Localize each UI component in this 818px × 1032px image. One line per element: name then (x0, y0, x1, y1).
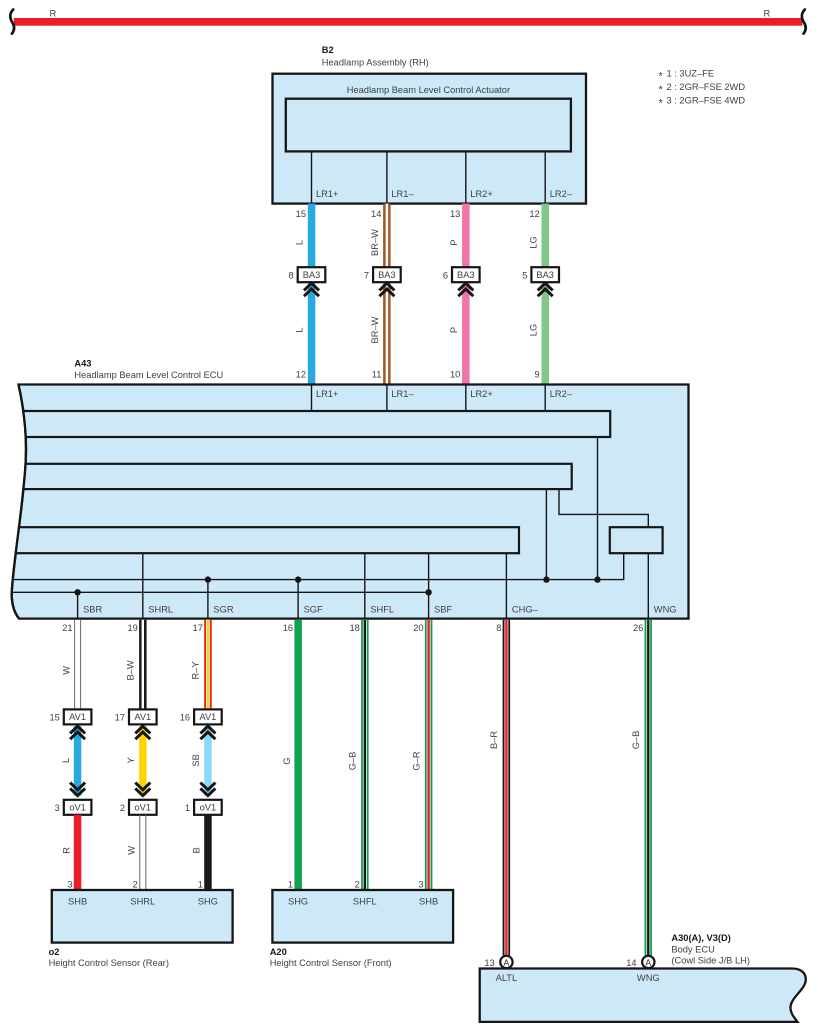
svg-text:L: L (295, 327, 305, 332)
svg-text:3 : 2GR–FSE 4WD: 3 : 2GR–FSE 4WD (667, 96, 746, 106)
svg-text:AV1: AV1 (69, 712, 86, 722)
svg-text:10: 10 (450, 369, 460, 379)
svg-text:P: P (449, 239, 459, 245)
svg-text:LG: LG (528, 324, 538, 336)
svg-text:R: R (61, 847, 71, 854)
svg-text:2 : 2GR–FSE 2WD: 2 : 2GR–FSE 2WD (667, 82, 746, 92)
svg-text:SHB: SHB (68, 896, 87, 906)
ECU internal block bar 1 (0, 411, 610, 437)
svg-text:12: 12 (529, 209, 539, 219)
A43 bottom pin SHRL lead (142, 553, 144, 618)
junction dot SGF / bus 1 (295, 576, 301, 582)
wire BR–W from B2 to connector BA3 (383, 204, 391, 268)
ECU wavy left edge redraw (12, 385, 26, 619)
ECU internal block bar 2 (0, 464, 572, 489)
svg-text:14: 14 (371, 209, 381, 219)
svg-text:14: 14 (626, 958, 636, 968)
svg-text:AV1: AV1 (134, 712, 151, 722)
internal wire from bar2 to bus line 1 (545, 489, 547, 579)
svg-text:*: * (659, 97, 664, 109)
svg-text:BR–W: BR–W (370, 229, 380, 256)
wire BR–W from BA3 to ECU A43 (383, 283, 391, 383)
connector arrow chevrons (379, 283, 394, 290)
svg-text:Headlamp Beam Level Control EC: Headlamp Beam Level Control ECU (74, 370, 223, 380)
connector oV1 pin 2 (129, 800, 157, 815)
connector BA3 pin 7 (373, 267, 401, 282)
A43 bottom pin SBR lead (77, 592, 79, 618)
B2 pin LR1+ lead (311, 151, 313, 203)
wire LG from BA3 to ECU A43 (542, 283, 550, 383)
connector arrow chevrons (down) (70, 783, 85, 790)
svg-text:1: 1 (288, 880, 293, 890)
svg-text:A20: A20 (270, 947, 287, 957)
svg-text:SGR: SGR (213, 605, 233, 615)
wire G-B from A43 WNG to body ECU WNG (645, 620, 653, 956)
svg-text:Height Control Sensor (Rear): Height Control Sensor (Rear) (49, 958, 169, 968)
svg-text:16: 16 (180, 713, 190, 723)
svg-text:B: B (192, 847, 202, 853)
B2 pin LR2– lead (544, 151, 546, 203)
svg-text:SHRL: SHRL (148, 605, 173, 615)
svg-text:A43: A43 (74, 359, 91, 369)
svg-text:2: 2 (355, 880, 360, 890)
svg-text:W: W (61, 666, 71, 675)
svg-text:3: 3 (67, 880, 72, 890)
wire G-R from A43 SBF to sensor A20 (425, 620, 433, 890)
wire Y from AV1 to oV1 (139, 726, 147, 795)
A43 bottom pin CHG– lead (505, 553, 507, 618)
svg-text:Headlamp Assembly (RH): Headlamp Assembly (RH) (322, 58, 429, 68)
internal wire from bar1 to bus line 1 (597, 437, 599, 580)
A43 bottom pin SGR lead (207, 580, 209, 619)
B2 pin LR2+ lead (465, 151, 467, 203)
svg-text:3: 3 (55, 803, 60, 813)
svg-text:LR1+: LR1+ (316, 189, 338, 199)
wire R (power feed, red) (14, 18, 803, 26)
wire R-Y from A43 SGR to connector AV1 (204, 620, 212, 710)
svg-text:WNG: WNG (637, 973, 660, 983)
A43 top pin LR2+ lead (465, 385, 467, 412)
connector AV1 pin 15 (64, 709, 92, 724)
connector oV1 pin 1 (194, 800, 222, 815)
svg-text:12: 12 (296, 369, 306, 379)
junction dot bar1 wire / bus 1 (594, 576, 600, 582)
svg-text:G–B: G–B (631, 731, 641, 750)
svg-text:G: G (282, 757, 292, 764)
svg-text:LG: LG (528, 236, 538, 248)
wire L from B2 to connector BA3 (308, 204, 316, 268)
svg-text:R: R (764, 9, 771, 19)
svg-text:P: P (449, 327, 459, 333)
wire W from A43 SBR to connector AV1 (74, 620, 75, 710)
svg-text:G–R: G–R (411, 751, 421, 770)
B2 pin LR1– lead (386, 151, 388, 203)
svg-text:(Cowl Side J/B LH): (Cowl Side J/B LH) (671, 956, 750, 966)
svg-text:17: 17 (115, 713, 125, 723)
svg-text:B–W: B–W (126, 660, 136, 680)
svg-text:BA3: BA3 (303, 270, 321, 280)
svg-text:26: 26 (633, 623, 643, 633)
svg-text:R: R (50, 9, 57, 19)
svg-text:7: 7 (364, 270, 369, 280)
svg-text:SHFL: SHFL (353, 896, 377, 906)
connector circle A pin 13 (500, 956, 512, 968)
headlamp beam level control actuator box (286, 99, 571, 152)
svg-text:15: 15 (49, 713, 59, 723)
wire R from oV1 to sensor o2 (74, 815, 82, 890)
svg-text:5: 5 (522, 270, 527, 280)
svg-text:LR1+: LR1+ (316, 389, 338, 399)
svg-text:L: L (295, 240, 305, 245)
junction dot bar2 wire / bus 1 (543, 576, 549, 582)
svg-text:SHFL: SHFL (370, 605, 394, 615)
A43 top pin LR2– lead (544, 385, 546, 412)
svg-text:18: 18 (349, 623, 359, 633)
svg-text:CHG–: CHG– (512, 605, 539, 615)
svg-text:WNG: WNG (654, 605, 677, 615)
svg-text:BA3: BA3 (378, 270, 396, 280)
connector arrow chevrons (up) (135, 726, 150, 733)
A43 bottom pin SBF lead (428, 553, 430, 618)
svg-text:13: 13 (484, 958, 494, 968)
svg-text:Height Control Sensor (Front): Height Control Sensor (Front) (270, 958, 392, 968)
svg-text:G–B: G–B (348, 752, 358, 771)
page-break squiggle left (10, 10, 14, 34)
A43 top pin LR1– lead (386, 385, 388, 412)
svg-text:SHRL: SHRL (130, 896, 155, 906)
svg-text:BR–W: BR–W (370, 316, 380, 343)
wire P from B2 to connector BA3 (462, 204, 470, 268)
ECU internal relay block (small box) (610, 527, 663, 553)
svg-text:SBR: SBR (83, 605, 102, 615)
svg-text:2: 2 (133, 880, 138, 890)
svg-text:Headlamp Beam Level Control Ac: Headlamp Beam Level Control Actuator (347, 85, 510, 95)
svg-text:oV1: oV1 (200, 803, 217, 813)
ECU internal bus line 1 (0, 553, 624, 579)
svg-text:*: * (659, 70, 664, 82)
svg-text:o2: o2 (49, 947, 60, 957)
svg-text:LR2–: LR2– (550, 189, 573, 199)
junction dot SBR / bus 2 (74, 589, 80, 595)
svg-text:BA3: BA3 (457, 270, 475, 280)
svg-text:1: 1 (185, 803, 190, 813)
svg-text:SHB: SHB (419, 896, 438, 906)
connector AV1 pin 17 (129, 709, 157, 724)
svg-text:1 : 3UZ–FE: 1 : 3UZ–FE (667, 69, 715, 79)
svg-text:AV1: AV1 (199, 712, 216, 722)
svg-text:Body ECU: Body ECU (671, 944, 714, 954)
wire B-R from A43 CHG- to body ECU ALTL (503, 620, 511, 956)
svg-text:B2: B2 (322, 45, 334, 55)
wire B from oV1 to sensor o2 (204, 815, 212, 890)
wire B-W from A43 SHRL to connector AV1 (139, 620, 147, 710)
svg-text:BA3: BA3 (536, 270, 554, 280)
svg-text:2: 2 (120, 803, 125, 813)
component B2 Headlamp Assembly (RH) box (273, 74, 587, 204)
svg-text:8: 8 (289, 270, 294, 280)
svg-text:SHG: SHG (288, 896, 308, 906)
svg-text:16: 16 (283, 623, 293, 633)
svg-text:LR1–: LR1– (391, 189, 414, 199)
A43 bottom pin SHFL lead (364, 553, 366, 618)
svg-text:SB: SB (191, 754, 201, 766)
connector arrow chevrons (down) (200, 783, 215, 790)
svg-text:Y: Y (126, 757, 136, 763)
svg-text:A: A (504, 957, 510, 967)
wire W from oV1 to sensor o2 (139, 815, 140, 890)
body ECU (Cowl Side J/B LH) box (wavy right edge) (480, 969, 806, 1022)
svg-text:SBF: SBF (434, 605, 452, 615)
component o2 Height Control Sensor (Rear) box (52, 890, 233, 943)
junction dot SBF / bus 2 (425, 589, 431, 595)
svg-text:W: W (127, 846, 137, 855)
svg-text:LR2–: LR2– (550, 389, 573, 399)
svg-text:oV1: oV1 (69, 803, 86, 813)
connector arrow chevrons (up) (70, 726, 85, 733)
svg-text:21: 21 (62, 623, 72, 633)
connector arrow chevrons (down) (135, 783, 150, 790)
wire P from BA3 to ECU A43 (462, 283, 470, 383)
connector arrow chevrons (538, 283, 553, 290)
svg-text:*: * (659, 84, 664, 96)
connector BA3 pin 5 (531, 267, 559, 282)
wire G-B from A43 SHFL to sensor A20 (361, 620, 369, 890)
ECU internal block bar 3 (0, 527, 519, 553)
svg-text:LR2+: LR2+ (470, 189, 492, 199)
svg-text:L: L (61, 758, 71, 763)
A43 top pin LR1+ lead (311, 385, 313, 412)
svg-text:3: 3 (418, 880, 423, 890)
svg-text:6: 6 (443, 270, 448, 280)
connector BA3 pin 6 (452, 267, 480, 282)
svg-text:1: 1 (198, 880, 203, 890)
svg-text:20: 20 (413, 623, 423, 633)
svg-text:B–R: B–R (489, 731, 499, 749)
svg-text:A: A (645, 957, 651, 967)
connector arrow chevrons (up) (200, 726, 215, 733)
page-break squiggle right (802, 10, 806, 34)
component A20 Height Control Sensor (Front) box (272, 890, 453, 943)
svg-text:15: 15 (296, 209, 306, 219)
ECU internal bus line 2 (0, 591, 429, 593)
svg-text:19: 19 (127, 623, 137, 633)
connector arrow chevrons (458, 283, 473, 290)
internal wire from bar2 to relay block (elbow) (559, 489, 648, 527)
wire L from AV1 to oV1 (74, 726, 82, 795)
svg-text:11: 11 (372, 369, 382, 379)
svg-text:LR2+: LR2+ (470, 389, 492, 399)
svg-text:oV1: oV1 (135, 803, 152, 813)
connector circle A pin 14 (642, 956, 654, 968)
svg-text:9: 9 (535, 369, 540, 379)
svg-text:8: 8 (496, 623, 501, 633)
svg-text:R–Y: R–Y (191, 661, 201, 679)
svg-text:ALTL: ALTL (496, 973, 518, 983)
wire L from BA3 to ECU A43 (308, 283, 316, 383)
connector oV1 pin 3 (64, 800, 92, 815)
svg-text:13: 13 (450, 209, 460, 219)
svg-text:LR1–: LR1– (391, 389, 414, 399)
connector arrow chevrons (304, 283, 319, 290)
svg-text:SGF: SGF (304, 605, 323, 615)
A43 bottom pin SGF lead (297, 580, 299, 619)
wire G from A43 SGF to sensor A20 (294, 620, 302, 890)
connector BA3 pin 8 (298, 267, 326, 282)
svg-text:17: 17 (193, 623, 203, 633)
wire LG from B2 to connector BA3 (542, 204, 550, 268)
svg-text:SHG: SHG (198, 896, 218, 906)
junction dot SGR / bus 1 (205, 576, 211, 582)
svg-text:A30(A), V3(D): A30(A), V3(D) (671, 933, 730, 943)
A43 bottom pin WNG lead (647, 553, 649, 618)
connector AV1 pin 16 (194, 709, 222, 724)
wire SB from AV1 to oV1 (204, 726, 212, 795)
